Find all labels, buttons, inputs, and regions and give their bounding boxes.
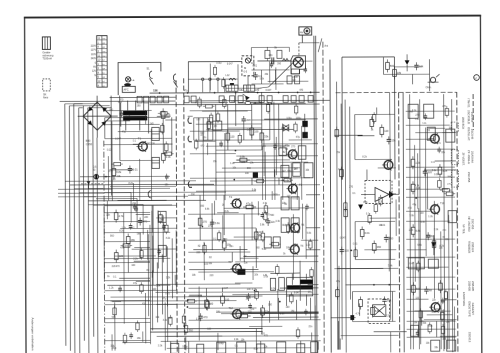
wire f5 h9 [221,312,318,314]
resistor f22 [161,125,164,132]
wire f2 v2 [107,156,109,200]
svg-text:0.047: 0.047 [266,90,272,92]
step bus extra verticals [152,205,154,272]
resistor f512 [290,295,293,302]
svg-text:470: 470 [203,315,208,319]
section divider right pair [399,92,400,352]
ll comp 3 [139,217,141,220]
mid band bus lines [190,110,252,112]
wire f1 v3 [262,146,264,200]
bottom transistor T12 [233,310,242,319]
mid comp e [246,205,253,209]
svg-text:0.01: 0.01 [365,231,371,235]
wire f11 h6 [136,213,150,215]
svg-text:gr: gr [103,84,105,87]
svg-text:127V: 127V [91,50,97,52]
oc wires 1 [406,148,455,150]
row of coupling component boxes under bus [137,96,142,103]
wire f9 v1 [395,199,397,235]
switch contact b [173,74,176,82]
fm area cap [255,72,257,75]
wire f11 v4 [149,225,152,344]
svg-text:100µ: 100µ [182,346,188,348]
meter box dashed [242,56,254,76]
wire f4 h4 [107,284,170,286]
svg-text:0.01: 0.01 [292,198,297,200]
edge comp 1 [451,122,458,132]
wire f11 v5 [142,331,144,341]
um box pair a [152,127,160,140]
rm bottom transistor box [373,305,386,317]
IF block link wire [394,66,421,68]
wire f5 v9 [164,302,166,350]
wire f5 h5 [308,284,319,286]
svg-text:T12: T12 [229,307,234,310]
svg-text:220V: 220V [91,46,97,48]
node f112 [271,103,273,105]
rm verticals [337,82,338,350]
wire f6 h0 [370,217,396,219]
wire f1 v9 [264,152,266,200]
svg-text:NF-TEIL: NF-TEIL [462,224,466,234]
svg-text:2SD313: 2SD313 [468,332,472,343]
mru box r2 [279,148,287,156]
rail top bends [65,103,97,105]
wire f11 h5 [122,342,150,344]
mru black cap 2 [302,132,307,138]
um resistor a [161,111,165,118]
upper left block wires [104,109,152,111]
tuning capacitor blob [124,83,131,86]
svg-text:ITM-51: ITM-51 [467,98,471,108]
resistor f118 [113,308,116,315]
rm upper cluster [370,119,374,126]
svg-text:100: 100 [254,129,259,133]
rm bottom cluster [359,300,363,307]
rm transistor tri [375,187,389,201]
resistor f101 [428,325,431,332]
main top bus 3 [110,96,176,98]
fm row choke [282,58,288,60]
svg-text:0.01: 0.01 [363,202,368,204]
rm tri wires [361,193,375,195]
svg-text:AFC: AFC [124,89,129,92]
legend fuse symbol [42,37,50,50]
resistor f15 [294,124,297,131]
bm cluster 3 [247,293,249,296]
svg-text:47µ: 47µ [336,281,341,283]
svg-text:6V: 6V [93,67,96,69]
capacitor f70 [424,115,428,117]
bus outline oval [245,101,251,104]
right mid long wire [334,267,398,269]
bridge rectifier D1-D4 [83,102,111,130]
wire f9 h0 [337,267,383,269]
svg-text:100: 100 [225,298,230,302]
connector clip 2 [188,136,192,142]
wire f4 v3 [174,275,176,285]
capacitor f41 [162,225,166,227]
connector clip 1 [188,117,192,123]
wire f4 v0 [147,230,149,260]
svg-text:T1: T1 [138,136,142,140]
node f16 [233,179,235,181]
mru bowtie [283,125,289,131]
wire f1 h0 [206,129,293,131]
ub cap [243,116,245,119]
rm dashed box [365,180,392,203]
svg-text:100µ: 100µ [216,63,222,65]
svg-text:0.01: 0.01 [434,174,439,176]
wire f11 h3 [134,260,151,262]
wire f2 h4 [157,115,171,117]
wire f11 h4 [119,277,150,279]
svg-text:0.047: 0.047 [340,237,346,239]
wire f11 v0 [114,302,116,350]
wire f6 h3 [364,249,396,251]
bm cluster 4 [241,314,248,318]
svg-text:47µ: 47µ [142,303,147,305]
resistor f13 [294,106,297,113]
wire f4 v1 [152,236,154,286]
mru horizontals [216,149,262,151]
wire f5 v7 [314,306,316,318]
resistor f32 [264,213,267,220]
resistor f33 [310,270,313,277]
mru wires low [188,184,320,187]
wire f8 h0 [272,60,312,62]
wire f5 h6 [249,325,282,327]
resistor f102 [419,311,422,318]
wire f7 h2 [415,132,454,134]
resistor f10 [195,141,198,148]
wire f3 v4 [305,208,307,259]
resistor f75 [444,292,447,299]
wire f1 v6 [207,143,209,155]
phones jack [430,77,435,82]
output transformer windings [300,280,312,285]
resistor f114 [238,135,241,142]
svg-text:2SC458: 2SC458 [471,219,475,230]
wire f2 h3 [133,143,173,145]
svg-text:15k: 15k [391,138,396,142]
oc transistor T9 [384,160,393,169]
wire f4 h0 [132,248,177,250]
wire f7 v5 [412,262,414,349]
wire f1 v11 [273,102,275,177]
wire f4 h1 [156,217,176,219]
capacitor f78 [437,148,441,150]
mru comp4 [260,133,264,140]
resistor f51 [184,326,187,333]
wire f7 h5 [407,249,427,251]
node f74 [415,197,417,199]
wire f7 h8 [440,335,457,337]
svg-text:0.01: 0.01 [133,168,139,172]
capacitor f25 [165,175,169,177]
svg-text:0.01: 0.01 [165,293,170,295]
ll box 2 [158,245,166,256]
section divider top right short [472,94,474,130]
um resistor b [162,153,166,160]
svg-text:47µ: 47µ [296,136,301,139]
wire f8 v0 [275,67,277,89]
wire f11 h2 [112,300,121,302]
wire f3 v9 [239,246,241,261]
wire f1 v4 [282,123,284,199]
svg-text:12V: 12V [92,71,97,73]
wire f10 h0 [427,314,452,316]
section divider mid [314,36,315,353]
resistor f311 [217,233,220,240]
oc comp 6 [427,232,429,235]
right top comp1 [386,62,390,69]
wire f2 h1 [109,169,133,171]
wire f5 v6 [185,337,187,350]
ll comp 2 [126,237,130,244]
bm bottom wires [161,340,321,343]
tuning box [122,86,135,92]
ot leads [299,261,301,301]
FM tuner transistor [293,57,303,67]
resistor f60 [344,203,347,210]
bm wires [188,287,262,289]
resistor f71 [446,192,453,195]
wire f3 h7 [235,261,318,263]
oc comp 3 [424,168,426,171]
fm row wire [257,60,291,62]
capacitor f42 [134,207,138,209]
oc bottom cluster a [412,285,416,292]
capacitor f80 [270,63,274,65]
svg-text:560: 560 [416,287,421,291]
svg-text:12p: 12p [268,54,273,57]
wire f5 v5 [311,333,313,341]
wire f5 h8 [189,294,202,296]
output transformer box [287,277,313,296]
wire f6 v3 [337,321,339,350]
wire f9 v0 [388,237,390,272]
svg-text:6.8k: 6.8k [116,170,122,174]
oc transistor T8 [430,134,439,143]
section divider left pair [176,80,177,353]
um box pair b [152,157,160,168]
wire f5 h0 [240,312,318,314]
svg-text:0.01: 0.01 [381,225,386,227]
wire f7 h1 [414,310,432,312]
capacitor f44 [133,205,137,207]
capacitor f18 [219,142,223,144]
resistor f64 [368,215,371,222]
capacitor f83 [303,68,307,70]
mid transistor T4 [232,199,241,208]
oc diode [431,242,436,248]
wire f5 v8 [255,329,257,350]
meter wires [247,76,249,93]
FM tuner box below [291,69,299,74]
wire f5 v0 [261,309,263,334]
wire f11 h1 [134,246,150,248]
svg-text:120: 120 [344,249,349,253]
wire f2 v4 [139,159,141,201]
wire f5 v4 [217,333,219,350]
capacitor f77 [416,331,420,333]
svg-text:6.8k: 6.8k [416,229,422,233]
wire f7 v2 [426,172,428,209]
svg-text:47µ: 47µ [122,131,127,134]
dashed stub [81,183,104,185]
node f514 [183,325,185,327]
svg-text:U: U [475,76,477,80]
fm row cap [271,57,273,64]
coil top row [229,78,235,80]
ll wires [104,204,176,206]
wire f6 v4 [339,339,341,350]
svg-text:Netz: Netz [43,96,49,99]
wire f1 v0 [275,137,277,175]
resistor f34 [276,267,279,274]
supply rail bus lines [65,104,66,346]
mru comp3 [240,158,247,162]
bottom long runs [110,296,250,299]
resistor f90 [374,205,377,212]
right top comp2 [393,69,397,76]
svg-text:GEGENT.: GEGENT. [471,303,475,316]
svg-text:47µ: 47µ [246,201,251,205]
lamp feed wire [301,35,303,43]
bottom band bus lines [156,283,240,285]
svg-text:1.2k: 1.2k [415,161,421,165]
bm coil box [270,278,275,290]
wire f5 h3 [166,335,222,337]
top row ring line [188,78,237,80]
resistor f117 [140,285,143,292]
wire f3 h1 [189,268,258,270]
svg-text:0.047: 0.047 [222,288,228,290]
wire f1 h11 [195,102,228,104]
svg-text:2SB324: 2SB324 [471,242,475,253]
bm cluster 6 [200,313,202,316]
oc bottom wires [406,276,455,278]
svg-text:C350: C350 [86,142,93,146]
svg-text:2SC945: 2SC945 [470,129,474,140]
wire f6 v1 [338,266,340,350]
svg-text:0.047: 0.047 [294,292,300,294]
mid comp d [254,232,258,239]
node f56 [254,290,256,292]
svg-text:560: 560 [209,302,214,306]
mid transistor T5 [291,223,300,232]
rm bottom dashed box [368,299,390,324]
oc bottom boxes [411,325,419,336]
resistor f58 [206,301,209,308]
wire f5 h2 [232,293,318,295]
svg-text:120: 120 [384,129,389,133]
um vert 1 [110,96,112,196]
wire f5 h7 [235,282,252,284]
wire f8 v3 [269,62,271,83]
wire f3 v1 [292,214,294,280]
resistor f110 [123,335,126,342]
resistor f57 [188,299,195,302]
rm wire y332 [374,331,407,333]
svg-text:Änderungen vorbehalten: Änderungen vorbehalten [31,318,35,351]
svg-text:47µ: 47µ [162,298,167,300]
coil can box 2 [244,85,255,91]
um small cap [129,166,131,169]
mid box pair C [264,237,271,248]
wire f11 v6 [123,213,125,324]
capacitor f73 [441,299,445,301]
wire f2 h2 [117,199,166,201]
wire f5 h1 [232,312,319,314]
wire f1 h8 [202,110,248,112]
wire f3 h4 [243,255,318,257]
wire f1 v13 [224,133,226,200]
capacitor f111 [273,145,277,147]
svg-text:47µ: 47µ [133,283,138,285]
wire f7 h7 [441,299,456,301]
varicap diode arrow [245,96,250,101]
lower-left cross wires [104,211,150,213]
svg-text:2SA564A: 2SA564A [470,151,474,163]
svg-text:5.6k: 5.6k [215,221,221,225]
fm area wire mid [252,69,290,71]
mid comp c [211,219,213,222]
resistor f115 [266,105,269,112]
svg-text:220: 220 [246,118,251,122]
svg-text:0.01: 0.01 [353,243,358,245]
svg-text:4x: 4x [300,30,304,34]
svg-text:270: 270 [203,220,208,224]
resistor f79 [432,241,435,248]
wire f6 h1 [334,134,362,136]
resistor f39 [309,241,312,248]
bm black comp [237,269,245,275]
resistor f116 [140,251,143,258]
svg-text:Ohrh.: Ohrh. [426,86,432,89]
wire f5 h4 [280,287,318,289]
wire f2 v0 [132,183,134,200]
resistor f12 [207,122,210,129]
bus step verticals [151,270,153,330]
svg-text:T10: T10 [440,202,445,205]
wire f7 v1 [433,201,435,299]
svg-text:100µ: 100µ [111,348,117,350]
wire f3 v3 [251,202,253,241]
bottom horizontal runs [151,327,263,329]
capacitor f114 [118,287,122,289]
staircase corners [104,193,131,223]
wire f6 h2 [378,167,396,169]
wire f1 v12 [271,191,273,200]
svg-text:47µ: 47µ [412,204,417,206]
top row drops [202,80,204,92]
wire f10 h2 [433,308,441,310]
wire f11 v3 [111,334,113,350]
svg-text:B30: B30 [86,139,91,143]
resistor f40 [165,225,168,232]
resistor f21 [165,152,172,155]
svg-text:2SC458: 2SC458 [467,172,471,183]
wire f8 v1 [209,64,211,91]
capacitor f510 [248,304,252,306]
um wires [105,116,170,118]
wire f4 v2 [151,211,153,278]
capacitor f115 [129,225,133,227]
svg-text:110V: 110V [91,54,97,56]
node f54 [279,301,281,303]
